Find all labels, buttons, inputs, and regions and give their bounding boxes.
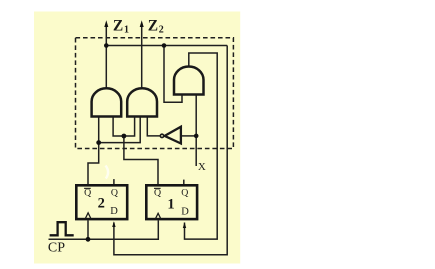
svg-text:2: 2: [98, 196, 105, 212]
svg-text:X: X: [198, 161, 206, 173]
svg-text:Z: Z: [113, 17, 123, 34]
svg-text:1: 1: [167, 197, 174, 213]
svg-text:2: 2: [159, 25, 164, 36]
svg-text:D: D: [110, 206, 118, 217]
svg-text:Q: Q: [84, 188, 91, 199]
svg-text:Q: Q: [154, 188, 161, 199]
svg-text:CP: CP: [48, 241, 65, 256]
svg-text:Q: Q: [181, 188, 188, 199]
svg-text:1: 1: [124, 25, 129, 36]
svg-text:Q: Q: [111, 188, 118, 199]
svg-text:Z: Z: [148, 17, 158, 34]
svg-text:D: D: [181, 207, 189, 218]
